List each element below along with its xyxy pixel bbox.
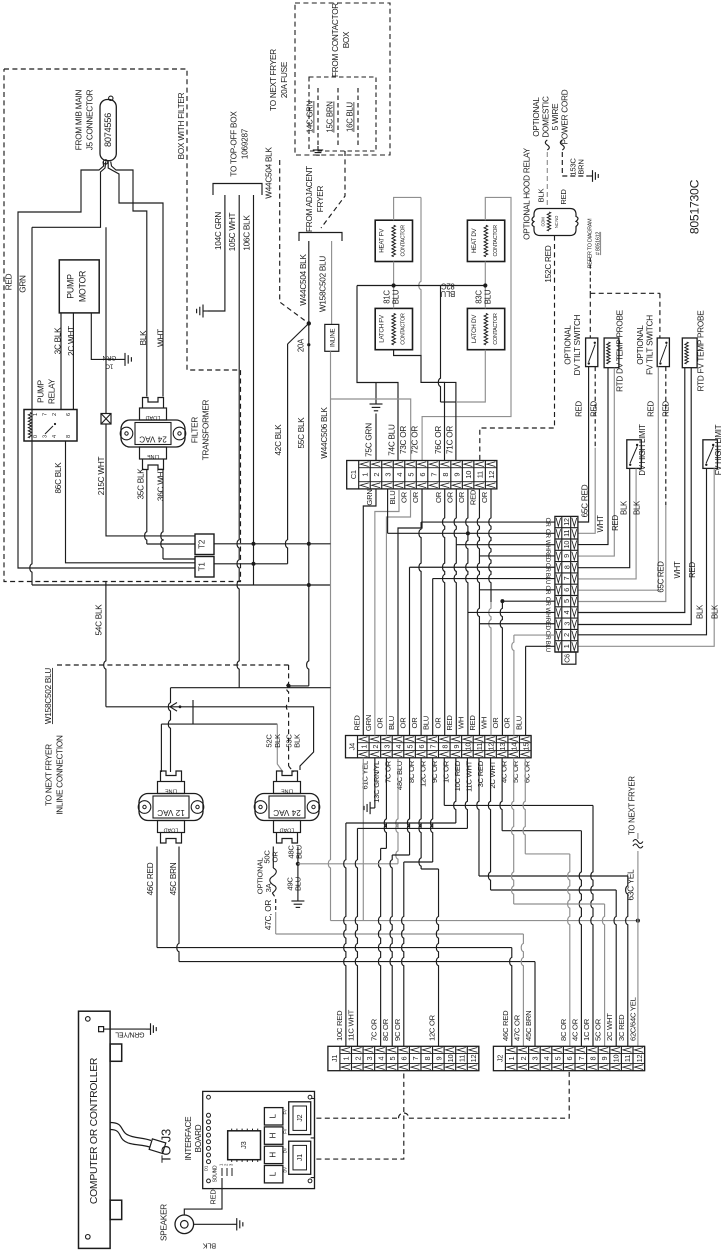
- label 9C OR below J4 pin 7: [430, 760, 439, 783]
- svg-text:COMPUTER OR CONTROLLER: COMPUTER OR CONTROLLER: [89, 1057, 100, 1204]
- squiggle 63C: [633, 840, 643, 849]
- svg-text:47C, OR: 47C, OR: [264, 900, 273, 930]
- wire to C1 pin 9: [421, 382, 456, 460]
- svg-text:8C OR: 8C OR: [381, 1018, 390, 1041]
- label RTD DV TEMP PROBE: [616, 309, 625, 392]
- label WHT: [157, 329, 166, 347]
- label 2C WHT: [67, 326, 76, 356]
- label 20A: [297, 338, 306, 352]
- svg-text:OR: OR: [434, 491, 443, 503]
- svg-text:0: 0: [33, 435, 39, 438]
- label 11C WHT above J1 pin 2: [346, 1009, 355, 1041]
- fuse (boxed X): [101, 414, 111, 425]
- svg-text:62C/64C YEL: 62C/64C YEL: [628, 997, 637, 1041]
- ribbon cable to J3: [110, 1123, 166, 1154]
- svg-text:7C OR: 7C OR: [384, 760, 393, 783]
- svg-text:20A FUSE: 20A FUSE: [280, 61, 289, 98]
- label OR below C1 pin 10: [457, 491, 466, 503]
- svg-text:5C OR: 5C OR: [594, 1018, 603, 1041]
- label RED above J4 pin 9: [445, 715, 454, 731]
- svg-text:11: 11: [562, 530, 571, 537]
- wire RED from J5 to T1: [18, 162, 195, 569]
- label OR below C1 pin 8: [434, 491, 443, 503]
- label 86C BLK: [54, 462, 63, 494]
- label 42C BLK: [274, 424, 283, 456]
- connector J4: [346, 736, 532, 758]
- svg-text:DV HIGH LIMIT: DV HIGH LIMIT: [638, 424, 647, 476]
- label RED (FV probe): [688, 562, 697, 578]
- label 45C BRN: [169, 862, 178, 895]
- label 215C WHT: [97, 457, 106, 496]
- svg-text:COM: COM: [541, 217, 546, 227]
- svg-text:OPTIONAL: OPTIONAL: [564, 325, 573, 365]
- svg-text:T2: T2: [198, 539, 207, 549]
- label OR above J4 pin 6: [410, 717, 419, 729]
- label 12C OR below J4 pin 6: [418, 760, 427, 787]
- wire 65C RED gray to C6 row11: [578, 448, 595, 534]
- label 3C BLK: [54, 327, 63, 355]
- wire 47C OR dashed then gray to J2 pin2: [272, 893, 523, 1046]
- ground 104C: [197, 305, 208, 318]
- wire 42C branch diagonal: [285, 323, 308, 563]
- wire 7C OR J4-3 to J1-4: [378, 758, 386, 1047]
- wire 1C GRN motor to ground: [91, 313, 120, 360]
- wire DV high limit BLK 2 (gray): [578, 468, 636, 579]
- label OR below C1 pin 12: [480, 491, 489, 503]
- wire T1 right to bus: [214, 563, 288, 565]
- enclosure FROM CONTACTOR BOX (dashed): [295, 3, 390, 155]
- svg-text:83C: 83C: [475, 290, 484, 304]
- label 48C BLU below J4 pin 4: [395, 761, 404, 790]
- label 2C WHT below J4 pin 12: [488, 760, 497, 788]
- contactor LATCH FV: [375, 308, 412, 349]
- label 61C YEL below J4 pin 1: [360, 761, 369, 790]
- svg-text:5C OR: 5C OR: [511, 760, 520, 783]
- wire 3C RED J4-11 to J2-11: [477, 758, 628, 1047]
- wire node hook to C1 pin 4: [357, 286, 398, 461]
- svg-text:65C RED: 65C RED: [657, 561, 666, 593]
- label FV HIGH LIMIT: [714, 424, 723, 475]
- label RED below C1 pin 11: [469, 489, 478, 505]
- wire 63C stub: [637, 833, 639, 839]
- svg-text:6: 6: [562, 588, 571, 592]
- wire 14C GRN (dashed stub): [317, 88, 319, 146]
- svg-text:15C BRN: 15C BRN: [326, 101, 335, 132]
- wire DV probe RED (gray): [578, 368, 614, 556]
- svg-text:10: 10: [562, 541, 571, 549]
- interface connector J2: [289, 1099, 315, 1138]
- label 3C RED above J2 pin 11: [617, 1014, 626, 1041]
- wire 61C YEL bus (gray): [331, 758, 638, 921]
- svg-text:3A: 3A: [264, 882, 273, 892]
- switch OPTIONAL DV TILT: [586, 338, 598, 367]
- label 83C BLU: [475, 289, 493, 304]
- svg-text:WHT: WHT: [596, 515, 605, 532]
- svg-text:54C BLK: 54C BLK: [95, 604, 104, 636]
- ground speaker: [232, 1218, 243, 1230]
- wire 15C BRN (dashed stub): [337, 88, 339, 148]
- junction on 55C at y585: [307, 583, 311, 587]
- svg-text:WHT: WHT: [157, 329, 166, 347]
- svg-text:2C WHT: 2C WHT: [605, 1013, 614, 1041]
- wire C6 row11 to J4 pin14 (gray): [512, 635, 555, 735]
- label TO NEXT FRYER (63C): [628, 776, 637, 835]
- svg-text:2: 2: [562, 633, 571, 637]
- wire C1 pin9 to J4 pin9: [454, 489, 456, 736]
- svg-text:24 VAC: 24 VAC: [139, 435, 167, 444]
- wire FV probe RED: [578, 368, 691, 625]
- label RED C6 row 10: [544, 618, 551, 631]
- wire fuse up: [105, 227, 107, 413]
- label BLK (FV HL 1): [696, 604, 705, 619]
- label 76C OR: [434, 426, 443, 454]
- wire 36C WHT to T1: [161, 470, 195, 559]
- svg-text:SOUND: SOUND: [213, 1165, 219, 1182]
- svg-text:FROM CONTACTOR: FROM CONTACTOR: [331, 3, 340, 77]
- wire 55C BLK down: [289, 323, 309, 686]
- label OR C6 row 2: [544, 529, 551, 539]
- wire 3C BLK motor to relay: [60, 313, 62, 410]
- inner dashed box: [309, 77, 376, 151]
- computer/controller outline: [79, 1011, 122, 1248]
- wire GRN from J5 down left edge: [30, 162, 331, 586]
- relay OPTIONAL HOOD RELAY: [532, 209, 578, 236]
- label GRN above J4 pin 2: [364, 715, 373, 731]
- label BLK (FV HL 2): [711, 604, 720, 619]
- svg-text:RED: RED: [445, 715, 454, 731]
- label OR C6 row 5: [544, 563, 551, 573]
- ground 49C BLU: [291, 896, 304, 907]
- wire 11C WHT J4-10 to J1-2: [355, 758, 467, 1047]
- svg-text:LOAD: LOAD: [146, 414, 161, 420]
- wire 49C BLU to ground: [297, 864, 299, 896]
- wire 1C OR J4-8 to J2-8: [444, 758, 593, 1047]
- svg-text:46C RED: 46C RED: [501, 1010, 510, 1041]
- wire 35C BLK to T2: [145, 470, 195, 544]
- svg-text:BLK: BLK: [273, 734, 282, 748]
- svg-text:FV: FV: [283, 1128, 288, 1133]
- probe RTD DV: [604, 338, 619, 368]
- svg-text:RTD DV TEMP PROBE: RTD DV TEMP PROBE: [616, 309, 625, 392]
- svg-text:DV TILT SWITCH: DV TILT SWITCH: [573, 314, 582, 375]
- dashed W158C502 BLU inline connection: [57, 665, 294, 772]
- svg-text:5: 5: [388, 1056, 397, 1060]
- svg-text:2: 2: [372, 473, 381, 477]
- wire 48C BLU: [297, 847, 299, 864]
- wire 48C BLU J4-4 (gray): [298, 758, 398, 864]
- svg-text:8051730C: 8051730C: [688, 179, 702, 234]
- svg-text:46C RED: 46C RED: [146, 862, 155, 895]
- svg-text:OPTIONAL: OPTIONAL: [636, 325, 645, 365]
- contactor HEAT FV: [375, 220, 412, 261]
- wire FV coil link: [393, 262, 395, 309]
- svg-text:LATCH FV: LATCH FV: [379, 314, 386, 343]
- junction 83C: [483, 283, 487, 287]
- svg-text:86C BLK: 86C BLK: [54, 462, 63, 494]
- svg-text:6: 6: [417, 745, 426, 749]
- contactor LATCH DV: [467, 308, 504, 349]
- arrow splice on 54C: [170, 703, 181, 712]
- label 153C BRN: [569, 158, 586, 176]
- wire 6C OR J4-15 to J2-6 (gray): [523, 758, 570, 1047]
- svg-text:TO NEXT FRYER: TO NEXT FRYER: [45, 744, 54, 806]
- svg-text:12: 12: [635, 1055, 644, 1063]
- label 81C BLU: [383, 289, 401, 304]
- svg-text:J4: J4: [348, 743, 357, 750]
- label W44C504 BLK (2): [299, 254, 308, 306]
- pump relay (box, coil, pins 1/7/2/6/0/3/4/8): [24, 410, 77, 442]
- svg-text:CONTACTOR: CONTACTOR: [401, 313, 407, 345]
- svg-text:RED: RED: [611, 515, 620, 531]
- svg-text:CONTACTOR: CONTACTOR: [493, 313, 499, 345]
- label W44C504 BLK: [265, 147, 274, 199]
- label 13C GRN/YL below J4 pin 2: [372, 761, 381, 803]
- label BLK (DV HL 2): [633, 500, 642, 515]
- label RED (FV tilt 1): [647, 401, 656, 417]
- label WH above J4 pin 10: [456, 717, 465, 729]
- svg-text:3C RED: 3C RED: [617, 1014, 626, 1041]
- wire 106C BLK: [253, 195, 255, 585]
- label PUMP RELAY: [37, 378, 57, 404]
- wire speaker BLK: [194, 1223, 232, 1225]
- label 36C WHT: [157, 467, 166, 501]
- svg-text:INLINE CONNECTION: INLINE CONNECTION: [56, 735, 65, 815]
- label TO NEXT FRYER INLINE CONNECTION: [45, 735, 65, 815]
- svg-text:8: 8: [66, 435, 72, 438]
- label WH above J4 pin 12: [480, 717, 489, 729]
- svg-text:9C OR: 9C OR: [393, 1018, 402, 1041]
- svg-text:DOMESTIC: DOMESTIC: [542, 96, 551, 138]
- svg-text:C6: C6: [563, 654, 572, 663]
- label 47C OR above J2 pin 2: [512, 1014, 521, 1041]
- svg-text:LOAD: LOAD: [164, 827, 179, 833]
- svg-text:6: 6: [66, 413, 72, 416]
- svg-text:1: 1: [562, 644, 571, 648]
- svg-text:105C WHT: 105C WHT: [228, 213, 237, 252]
- svg-text:H: H: [269, 1152, 278, 1158]
- svg-text:FROM MIB MAIN: FROM MIB MAIN: [75, 89, 84, 150]
- svg-text:J2: J2: [295, 1114, 304, 1121]
- wire dashed tilt-switch header: [590, 293, 660, 338]
- svg-text:WHT: WHT: [673, 561, 682, 578]
- label 55C BLK: [297, 417, 306, 449]
- jumper blocks L/H/H/L: [264, 1108, 287, 1183]
- wire 86C BLK relay to T1: [66, 441, 196, 563]
- svg-text:7: 7: [577, 1056, 586, 1060]
- label 9C OR above J1 pin 6: [393, 1018, 402, 1041]
- svg-text:1: 1: [360, 473, 369, 477]
- svg-text:3: 3: [382, 745, 391, 749]
- label 54C BLK: [95, 604, 104, 636]
- svg-text:BLU: BLU: [514, 716, 523, 730]
- svg-text:OR: OR: [446, 491, 455, 503]
- label 10C RED below J4 pin 9: [453, 760, 462, 791]
- svg-text:H: H: [269, 1132, 278, 1138]
- svg-text:GRN: GRN: [102, 354, 116, 361]
- wire 52C BLK (gray): [277, 724, 283, 772]
- label OR above J4 pin 13: [491, 717, 500, 729]
- wire 105C WHT: [237, 195, 239, 688]
- svg-text:OR: OR: [399, 717, 408, 729]
- label 62C/64C YEL above J2 pin 12: [628, 997, 637, 1041]
- wire W44C504 BLK (from bracket): [308, 241, 310, 323]
- label 8C OR above J1 pin 5: [381, 1018, 390, 1041]
- label BLU below C1 pin 4: [388, 490, 397, 504]
- svg-text:15: 15: [521, 743, 530, 751]
- label 8C OR below J4 pin 5: [407, 760, 416, 783]
- label 5C OR below J4 pin 14: [511, 760, 520, 783]
- svg-text:J1: J1: [330, 1055, 339, 1062]
- svg-text:CONTACTOR: CONTACTOR: [493, 225, 499, 257]
- svg-text:BLK: BLK: [203, 1242, 217, 1250]
- wire 2C WHT J4-12 to J2-10: [488, 758, 616, 1047]
- svg-text:BLU: BLU: [422, 716, 431, 730]
- svg-text:RED: RED: [575, 401, 584, 417]
- svg-text:BLK: BLK: [633, 500, 642, 515]
- label DV HIGH LIMIT: [638, 424, 647, 476]
- wire WHT J5 to filter transformer: [108, 162, 163, 397]
- label 106C BLK: [243, 215, 252, 251]
- svg-text:3: 3: [562, 622, 571, 626]
- svg-text:J5 CONNECTOR: J5 CONNECTOR: [86, 89, 95, 150]
- label RED: [5, 273, 14, 290]
- label OR C6 row 11: [544, 631, 551, 641]
- label 73C OR: [399, 426, 408, 454]
- svg-text:BLK: BLK: [711, 604, 720, 619]
- speaker: [160, 1204, 194, 1241]
- label 48C BLU: [287, 845, 304, 859]
- label 71C OR: [445, 426, 454, 454]
- svg-text:10: 10: [464, 471, 473, 479]
- label OR above J4 pin 3: [375, 717, 384, 729]
- transformer 12 VAC: [138, 771, 204, 843]
- chip J3: [228, 1129, 261, 1162]
- ground GRN/YEL: [146, 1023, 156, 1035]
- label FILTER TRANSFORMER: [191, 399, 211, 460]
- svg-text:12C OR: 12C OR: [418, 760, 427, 787]
- label TO J3: [159, 1129, 174, 1163]
- svg-text:11C WHT: 11C WHT: [346, 1009, 355, 1041]
- svg-text:1069287: 1069287: [241, 128, 250, 159]
- wire 4C OR J4-13 to J2-7: [500, 758, 581, 1047]
- label RED above J4 pin 11: [468, 715, 477, 731]
- svg-text:BLU: BLU: [294, 877, 303, 891]
- svg-text:BOARD: BOARD: [194, 1124, 203, 1152]
- label FROM MIB MAIN J5 CONNECTOR: [75, 89, 95, 150]
- pump motor: [59, 260, 99, 313]
- wire dashed from contactor box to adjacent-fryer bracket: [321, 151, 345, 228]
- wire C1 pin8 to J4 pin8: [443, 489, 445, 736]
- svg-text:BLU: BLU: [440, 289, 455, 298]
- svg-text:47C OR: 47C OR: [512, 1014, 521, 1041]
- label TO TOP-OFF BOX 1069287: [230, 111, 250, 177]
- svg-text:9: 9: [562, 554, 571, 558]
- label 65C RED: [581, 484, 590, 517]
- svg-text:BLU: BLU: [387, 716, 396, 730]
- label BLU C6 row 12: [544, 641, 551, 652]
- svg-text:OR: OR: [410, 717, 419, 729]
- svg-text:W44C504 BLK: W44C504 BLK: [299, 254, 308, 306]
- svg-text:8: 8: [441, 473, 450, 477]
- svg-text:INTERFACE: INTERFACE: [184, 1116, 193, 1160]
- svg-text:RED: RED: [469, 489, 478, 505]
- svg-text:3: 3: [365, 1056, 374, 1060]
- label W158C502 BLU (2): [319, 256, 328, 313]
- junction 48C: [296, 862, 300, 866]
- inline fuse holder: [325, 324, 339, 351]
- label RED (hood): [559, 189, 568, 205]
- label OR below C1 pin 5: [400, 491, 409, 503]
- wire 2C WHT motor to relay: [72, 313, 74, 410]
- wire 13C GRN/YL to ground: [374, 758, 376, 808]
- svg-text:12: 12: [562, 518, 571, 526]
- label BLK (hood): [537, 189, 546, 203]
- wire 63C YEL up (gray): [637, 851, 639, 921]
- wire C6 row2 to C1 pin3: [388, 489, 555, 533]
- LED row D1-D8: [204, 1113, 211, 1171]
- svg-text:2C WHT: 2C WHT: [488, 760, 497, 788]
- label RTD FV TEMP PROBE: [697, 310, 706, 392]
- svg-text:2: 2: [519, 1056, 528, 1060]
- svg-text:6C OR: 6C OR: [522, 760, 531, 783]
- svg-text:3: 3: [43, 435, 49, 438]
- label 12C OR above J1 pin 9: [428, 1014, 437, 1041]
- svg-text:6: 6: [418, 473, 427, 477]
- svg-text:BLU: BLU: [388, 490, 397, 504]
- wire C1 pin6 to J4 pin4: [398, 489, 422, 736]
- junction T1 bus: [252, 562, 256, 566]
- svg-text:OPTIONAL HOOD RELAY: OPTIONAL HOOD RELAY: [523, 147, 532, 239]
- label OR C6 row 8: [544, 597, 551, 607]
- bracket FROM ADJACENT FRYER: [299, 233, 342, 242]
- svg-text:14: 14: [510, 743, 519, 751]
- svg-text:81C: 81C: [383, 290, 392, 304]
- junction T2 bus b: [307, 542, 311, 546]
- svg-text:5: 5: [554, 1056, 563, 1060]
- svg-text:TO NEXT FRYER: TO NEXT FRYER: [269, 49, 278, 111]
- label 1C OR above J2 pin 8: [582, 1018, 591, 1041]
- wire latch FV to C1 pin 8: [394, 350, 445, 461]
- svg-text:6: 6: [400, 1056, 409, 1060]
- wire C6 row8 to J4 pin13: [500, 601, 555, 735]
- svg-text:3C BLK: 3C BLK: [54, 327, 63, 355]
- svg-text:106C BLK: 106C BLK: [243, 215, 252, 251]
- filter transformer 24 VAC: [120, 398, 186, 470]
- label 46C RED: [146, 862, 155, 895]
- svg-text:OR: OR: [271, 851, 280, 863]
- wire FV high limit BLK 1: [578, 468, 706, 634]
- wire 10C RED J4-9 to J1-1: [344, 758, 456, 1047]
- label 74C BLU: [388, 424, 397, 456]
- svg-text:RED: RED: [559, 189, 568, 205]
- label BLK (DV HL 1): [620, 500, 629, 515]
- svg-text:11: 11: [623, 1055, 632, 1062]
- svg-text:LOAD: LOAD: [280, 827, 295, 833]
- svg-text:9: 9: [453, 473, 462, 477]
- svg-text:24 VAC: 24 VAC: [273, 808, 301, 817]
- wire 16C BLU (dashed stub): [357, 88, 359, 148]
- label GRN/YEL: [115, 1030, 144, 1037]
- label FROM ADJACENT FRYER: [305, 166, 325, 232]
- svg-text:POWER CORD: POWER CORD: [561, 89, 570, 144]
- wire BLK J5 to filter transformer: [111, 162, 147, 397]
- svg-text:WH: WH: [480, 717, 489, 729]
- svg-text:BLK: BLK: [293, 734, 302, 748]
- svg-text:RED: RED: [5, 273, 14, 290]
- wire 54C BLK: [104, 581, 314, 770]
- svg-text:12: 12: [487, 471, 496, 479]
- svg-text:9: 9: [600, 1056, 609, 1060]
